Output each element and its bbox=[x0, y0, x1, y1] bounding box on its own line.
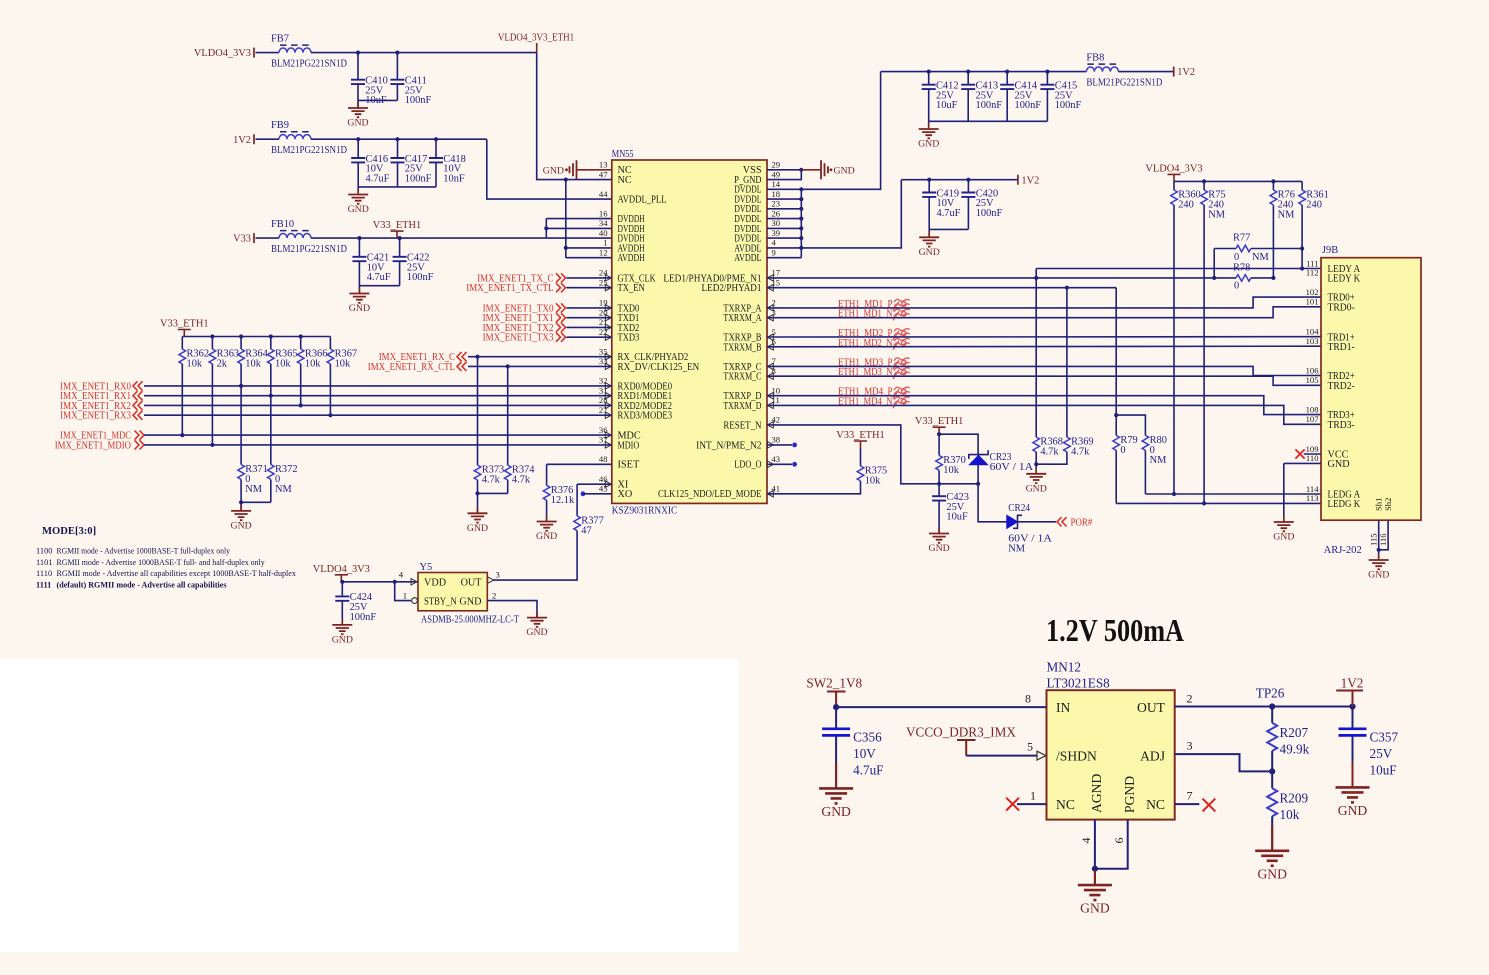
svg-text:106: 106 bbox=[1306, 365, 1320, 375]
wire TXRXM_B to TRD1- bbox=[767, 345, 1321, 348]
wire Y5 GND bbox=[487, 601, 537, 618]
resistor R77 bbox=[1236, 245, 1251, 252]
twisted-pair icon bbox=[893, 299, 910, 310]
svg-text:10k: 10k bbox=[943, 465, 959, 476]
wire MODE1 strap down bbox=[270, 396, 272, 465]
wire 1V2_ETH rail bbox=[311, 138, 487, 140]
resistor R373 bbox=[474, 465, 504, 486]
MN55 pin arrows bbox=[605, 275, 773, 497]
svg-text:TXRXM_B: TXRXM_B bbox=[723, 342, 761, 353]
svg-text:TRD0-: TRD0- bbox=[1328, 302, 1356, 313]
resistor R376 bbox=[543, 485, 575, 506]
svg-text:108: 108 bbox=[1306, 404, 1319, 414]
svg-text:10uF: 10uF bbox=[1370, 763, 1397, 778]
twisted-pair icon bbox=[893, 358, 910, 369]
resistor R366 bbox=[297, 349, 327, 370]
wire VLDO4_3V3 rail bbox=[1174, 180, 1302, 182]
wire gnd lead bbox=[928, 121, 930, 129]
svg-text:1101: 1101 bbox=[36, 558, 52, 567]
svg-text:GND: GND bbox=[467, 523, 488, 534]
svg-text:39: 39 bbox=[772, 228, 781, 238]
svg-text:6: 6 bbox=[772, 337, 777, 347]
svg-text:4.7uF: 4.7uF bbox=[853, 763, 883, 778]
svg-text:AGND: AGND bbox=[1089, 774, 1104, 813]
wire pin110 GND bbox=[1284, 462, 1321, 464]
pin1 NC no-connect bbox=[1017, 803, 1047, 805]
svg-text:24: 24 bbox=[599, 268, 608, 278]
power port SW2_1V8 bbox=[806, 676, 862, 708]
resistor R372 bbox=[267, 464, 297, 495]
ground bbox=[332, 619, 353, 646]
svg-text:VLDO4_3V3_ETH1: VLDO4_3V3_ETH1 bbox=[498, 33, 574, 44]
junction C411 tap bbox=[395, 51, 399, 55]
junction C410 tap bbox=[356, 51, 360, 55]
svg-text:GND: GND bbox=[536, 531, 557, 542]
svg-text:V33_ETH1: V33_ETH1 bbox=[373, 220, 421, 231]
ground bbox=[536, 516, 557, 543]
capacitor C424 bbox=[335, 582, 376, 623]
svg-text:NM: NM bbox=[1278, 210, 1295, 221]
svg-text:TXD3: TXD3 bbox=[618, 333, 640, 344]
svg-text:TRD1-: TRD1- bbox=[1328, 342, 1356, 353]
svg-text:1V2: 1V2 bbox=[1177, 67, 1195, 78]
ground bbox=[1336, 761, 1370, 818]
svg-text:R209: R209 bbox=[1280, 791, 1309, 806]
wire VLDO4_3V3_ETH1 drop bbox=[537, 53, 566, 180]
power port VCCO_DDR3_IMX bbox=[906, 724, 1016, 755]
wire P_GND stub bbox=[767, 170, 801, 180]
svg-text:PGND: PGND bbox=[1122, 776, 1137, 813]
svg-text:116: 116 bbox=[1378, 533, 1388, 546]
svg-text:30: 30 bbox=[772, 218, 781, 228]
svg-text:GND: GND bbox=[230, 520, 251, 531]
svg-text:NC: NC bbox=[1056, 797, 1075, 812]
svg-text:ISET: ISET bbox=[618, 460, 641, 471]
svg-text:VCCO_DDR3_IMX: VCCO_DDR3_IMX bbox=[906, 724, 1016, 739]
wire LED2 row bbox=[767, 287, 1116, 289]
wire cap bottoms bbox=[358, 186, 436, 188]
svg-text:GND: GND bbox=[1080, 901, 1110, 916]
wire RESET_N bbox=[767, 425, 978, 484]
svg-text:19: 19 bbox=[599, 298, 608, 308]
twisted-pair icon bbox=[893, 368, 910, 379]
wire VLDO4_3V3_ETH1 rail bbox=[311, 52, 537, 54]
svg-text:10uF: 10uF bbox=[936, 100, 958, 111]
J9B shield pins bbox=[1374, 498, 1394, 511]
wire gnd lead bbox=[357, 187, 359, 195]
svg-text:BLM21PG221SN1D: BLM21PG221SN1D bbox=[271, 244, 347, 255]
power port VLDO4_3V3 bbox=[1145, 163, 1202, 181]
svg-text:LEDG K: LEDG K bbox=[1328, 499, 1361, 510]
svg-text:112: 112 bbox=[1306, 268, 1319, 278]
resistor R374 bbox=[504, 465, 535, 486]
svg-text:13: 13 bbox=[599, 160, 608, 170]
power port V33_ETH1 bbox=[373, 220, 421, 238]
svg-text:NC: NC bbox=[1146, 797, 1165, 812]
svg-text:TXRXM_C: TXRXM_C bbox=[723, 372, 761, 383]
svg-text:102: 102 bbox=[1306, 287, 1319, 297]
svg-text:ARJ-202: ARJ-202 bbox=[1324, 545, 1362, 556]
capacitor C411 bbox=[390, 53, 431, 107]
svg-text:GND: GND bbox=[347, 118, 368, 129]
svg-text:Sh1: Sh1 bbox=[1374, 498, 1384, 511]
ground bbox=[1078, 870, 1112, 916]
wire 1V2 to FB9 bbox=[256, 138, 280, 140]
ground bbox=[1368, 554, 1389, 581]
wire Sh2 stub bbox=[1379, 520, 1388, 550]
resistor R77 bracket bbox=[1213, 249, 1215, 278]
wire ISET bbox=[547, 463, 612, 465]
svg-text:1V2: 1V2 bbox=[1021, 175, 1039, 186]
svg-text:MDIO: MDIO bbox=[618, 440, 640, 451]
wire OUT to 1V2 bbox=[1175, 706, 1353, 708]
svg-text:101: 101 bbox=[1306, 297, 1319, 307]
svg-text:1: 1 bbox=[603, 238, 607, 248]
wire V33 to FB10 bbox=[256, 237, 280, 239]
svg-text:1V2: 1V2 bbox=[1341, 676, 1364, 691]
svg-text:1100: 1100 bbox=[36, 547, 52, 556]
wire CLK125 to R375 bbox=[767, 481, 861, 494]
capacitor C422 bbox=[393, 238, 434, 286]
svg-text:GND: GND bbox=[332, 634, 353, 645]
resistor R361 bbox=[1299, 190, 1329, 211]
svg-text:10k: 10k bbox=[335, 359, 351, 370]
svg-text:4: 4 bbox=[399, 570, 404, 580]
svg-text:RGMII mode - Advertise 1000BAS: RGMII mode - Advertise 1000BASE-T full-d… bbox=[57, 547, 231, 556]
svg-text:R77: R77 bbox=[1233, 233, 1250, 244]
svg-text:2: 2 bbox=[1187, 692, 1193, 706]
svg-text:1: 1 bbox=[403, 591, 407, 601]
ground bbox=[349, 288, 370, 315]
wire pin1 AVDDH bbox=[566, 247, 612, 249]
resistor R375 bbox=[857, 466, 887, 487]
svg-text:AVDDH: AVDDH bbox=[618, 253, 646, 264]
svg-text:10k: 10k bbox=[245, 359, 261, 370]
wire 1V2 cap rail bbox=[881, 71, 1087, 73]
svg-text:VDD: VDD bbox=[424, 578, 446, 589]
svg-text:28: 28 bbox=[599, 395, 608, 405]
capacitor C356 bbox=[822, 707, 883, 788]
svg-text:GND: GND bbox=[1328, 459, 1350, 470]
svg-text:V33: V33 bbox=[233, 234, 251, 245]
wire R369 column bbox=[1066, 288, 1068, 437]
svg-text:44: 44 bbox=[599, 189, 608, 199]
wire TXRXM_A to TRD0- bbox=[767, 307, 1321, 318]
ground bbox=[347, 102, 368, 129]
svg-text:23: 23 bbox=[772, 199, 781, 209]
svg-text:47: 47 bbox=[599, 169, 608, 179]
svg-text:LT3021ES8: LT3021ES8 bbox=[1047, 676, 1111, 691]
resistor R75 bbox=[1201, 190, 1226, 221]
svg-text:LEDY K: LEDY K bbox=[1328, 274, 1361, 285]
svg-text:60V / 1A: 60V / 1A bbox=[990, 462, 1034, 473]
wire V33_ETH1 rail bbox=[311, 237, 546, 239]
svg-text:CLK125_NDO/LED_MODE: CLK125_NDO/LED_MODE bbox=[658, 489, 762, 500]
svg-text:GND: GND bbox=[1368, 570, 1389, 581]
svg-text:TX_EN: TX_EN bbox=[618, 283, 646, 294]
ferrite bead FB8 bbox=[1086, 53, 1162, 89]
svg-text:NM: NM bbox=[1252, 252, 1269, 263]
svg-text:43: 43 bbox=[772, 454, 781, 464]
wire Sh1 stub bbox=[1378, 520, 1380, 550]
svg-text:C356: C356 bbox=[853, 730, 882, 745]
svg-text:FB10: FB10 bbox=[271, 219, 294, 230]
svg-text:10k: 10k bbox=[305, 359, 321, 370]
svg-text:BLM21PG221SN1D: BLM21PG221SN1D bbox=[1086, 78, 1162, 89]
svg-text:TXRXM_A: TXRXM_A bbox=[723, 313, 762, 324]
svg-text:GND: GND bbox=[834, 166, 855, 177]
svg-text:3: 3 bbox=[1187, 739, 1193, 753]
wire TXRXM_C to TRD2- bbox=[767, 376, 1321, 385]
svg-text:MODE[3:0]: MODE[3:0] bbox=[42, 526, 96, 537]
power port 1V2 bbox=[1174, 67, 1195, 79]
svg-text:9: 9 bbox=[772, 248, 776, 258]
svg-text:GND: GND bbox=[928, 543, 949, 554]
svg-text:ADJ: ADJ bbox=[1140, 749, 1165, 764]
svg-text:GND: GND bbox=[526, 627, 547, 638]
svg-text:48: 48 bbox=[599, 454, 608, 464]
svg-text:1111: 1111 bbox=[36, 580, 51, 589]
crystal osc Y5 bbox=[418, 573, 487, 611]
twisted-pair icon bbox=[893, 309, 910, 320]
capacitor C357 bbox=[1339, 707, 1399, 788]
svg-text:GND: GND bbox=[459, 596, 481, 607]
wire pin47 bbox=[566, 179, 612, 181]
wire R368 column bbox=[1035, 269, 1037, 438]
wire AGND/PGND pins 4,6 bbox=[1094, 820, 1096, 869]
no-connect dangling end bbox=[792, 443, 797, 448]
power port V33_ETH1 bbox=[836, 430, 884, 448]
svg-text:GND: GND bbox=[543, 166, 564, 177]
ground bbox=[1026, 468, 1047, 495]
wire LEDG A row bbox=[1145, 493, 1321, 495]
svg-text:47: 47 bbox=[581, 525, 591, 536]
resistor R370 bbox=[936, 455, 966, 476]
svg-text:42: 42 bbox=[772, 415, 781, 425]
svg-text:33: 33 bbox=[599, 356, 608, 366]
svg-text:100nF: 100nF bbox=[1055, 100, 1082, 111]
ground bbox=[348, 189, 369, 216]
svg-text:41: 41 bbox=[772, 484, 781, 494]
wire R377 to Y5 OUT bbox=[493, 531, 578, 580]
svg-text:KSZ9031RNXIC: KSZ9031RNXIC bbox=[612, 506, 677, 517]
capacitor C412 bbox=[922, 72, 959, 122]
wire cap bottoms bbox=[359, 285, 399, 287]
wire gnd lead bbox=[358, 286, 360, 294]
op-amp U MN55 KSZ9031RNXIC body bbox=[612, 160, 767, 503]
svg-text:4.7uF: 4.7uF bbox=[367, 272, 391, 283]
wire DVDDL bus bbox=[800, 189, 802, 257]
power port VLDO4_3V3 bbox=[313, 564, 370, 582]
svg-text:115: 115 bbox=[1369, 533, 1379, 546]
wire cap bottoms bbox=[929, 120, 1048, 122]
svg-text:12.1k: 12.1k bbox=[551, 495, 575, 506]
svg-text:STBY_N: STBY_N bbox=[424, 596, 457, 607]
svg-text:10: 10 bbox=[772, 386, 781, 396]
svg-text:3: 3 bbox=[496, 570, 500, 580]
wire pin16 DVDDH bbox=[546, 218, 612, 220]
wire LDO_O stub bbox=[767, 463, 792, 465]
resistor R363 bbox=[209, 349, 239, 370]
svg-text:GND: GND bbox=[1338, 803, 1368, 818]
wire VLDO4_3V3 to FB7 bbox=[256, 52, 280, 54]
svg-text:10k: 10k bbox=[275, 359, 291, 370]
ground VSS/P_GND bbox=[799, 168, 803, 172]
svg-text:VLDO4_3V3: VLDO4_3V3 bbox=[313, 564, 370, 575]
svg-text:OUT: OUT bbox=[461, 578, 483, 589]
svg-text:GND: GND bbox=[349, 303, 370, 314]
svg-text:TRD2-: TRD2- bbox=[1328, 381, 1356, 392]
svg-text:FB7: FB7 bbox=[271, 34, 289, 45]
power port VLDO4_3V3 bbox=[194, 48, 254, 60]
no-connect X bbox=[1006, 798, 1019, 811]
pin7 NC no-connect bbox=[1175, 803, 1200, 805]
svg-text:107: 107 bbox=[1306, 414, 1320, 424]
svg-text:240: 240 bbox=[1178, 200, 1194, 211]
wire gnd lead bbox=[1378, 550, 1380, 560]
svg-text:12: 12 bbox=[599, 248, 608, 258]
svg-text:ASDMB-25.000MHZ-LC-T: ASDMB-25.000MHZ-LC-T bbox=[421, 615, 520, 626]
twisted-pair icon bbox=[893, 329, 910, 340]
ground bbox=[928, 528, 949, 555]
wire DVDDL to top caps bbox=[801, 72, 880, 190]
wire to AVDDL_PLL pin44 bbox=[487, 139, 612, 199]
svg-text:GND: GND bbox=[348, 204, 369, 215]
svg-text:38: 38 bbox=[772, 435, 781, 445]
wire cap bottoms bbox=[358, 99, 397, 101]
svg-text:35: 35 bbox=[599, 347, 608, 357]
resistor R365 bbox=[267, 349, 297, 370]
svg-text:IMX_ENET1_RX3: IMX_ENET1_RX3 bbox=[60, 411, 131, 422]
svg-text:/SHDN: /SHDN bbox=[1056, 749, 1097, 764]
twisted-pair icon bbox=[893, 387, 910, 398]
wire V33 to CR23 bbox=[939, 434, 978, 454]
capacitor C417 bbox=[391, 139, 432, 187]
resistor R360 bbox=[1171, 190, 1201, 211]
svg-text:105: 105 bbox=[1306, 375, 1319, 385]
connector J9B ARJ-202 body bbox=[1321, 258, 1421, 521]
svg-text:NM: NM bbox=[275, 484, 292, 495]
wire LEDY A row bbox=[1036, 268, 1321, 270]
svg-text:100nF: 100nF bbox=[976, 208, 1003, 219]
svg-text:IN: IN bbox=[1056, 700, 1071, 715]
svg-text:IMX_ENET1_RX_CTL: IMX_ENET1_RX_CTL bbox=[368, 362, 455, 373]
ferrite bead FB7 bbox=[271, 34, 347, 70]
wire gnd lead bbox=[240, 502, 242, 511]
capacitor C420 bbox=[961, 180, 1002, 230]
svg-text:TP26: TP26 bbox=[1256, 686, 1285, 701]
wire pin40 DVDDH bbox=[546, 237, 612, 239]
resistor R209 bbox=[1267, 771, 1308, 822]
svg-text:10k: 10k bbox=[865, 476, 881, 487]
resistor R371 bbox=[238, 464, 268, 495]
resistor R362 bbox=[179, 349, 209, 370]
wire TXRXP_A to TRD0+ bbox=[767, 297, 1321, 308]
svg-text:15: 15 bbox=[772, 278, 781, 288]
svg-text:FB8: FB8 bbox=[1086, 53, 1104, 64]
svg-text:36: 36 bbox=[599, 425, 608, 435]
no-connect X bbox=[1295, 449, 1304, 458]
wire XI to R377 bbox=[576, 484, 578, 516]
svg-text:4.7k: 4.7k bbox=[1040, 447, 1059, 458]
svg-text:C357: C357 bbox=[1370, 730, 1399, 745]
svg-text:100nF: 100nF bbox=[976, 100, 1003, 111]
capacitor C414 bbox=[1000, 72, 1041, 122]
ground bbox=[467, 507, 488, 534]
wire STBY_N tie bbox=[395, 582, 411, 601]
svg-text:25: 25 bbox=[599, 278, 608, 288]
ground bbox=[819, 762, 853, 819]
ferrite bead FB10 bbox=[271, 219, 347, 255]
wire /SHDN bbox=[966, 755, 1037, 757]
resistor R79 bbox=[1113, 435, 1138, 456]
no-connect dangling end bbox=[581, 491, 586, 496]
wire LED2 to R79/R80 bbox=[1115, 288, 1117, 415]
svg-text:34: 34 bbox=[599, 218, 608, 228]
svg-text:4.7k: 4.7k bbox=[1071, 447, 1090, 458]
svg-text:MN55: MN55 bbox=[612, 149, 634, 160]
svg-text:GND: GND bbox=[918, 139, 939, 150]
ground bbox=[1273, 516, 1294, 543]
svg-text:R207: R207 bbox=[1280, 725, 1309, 740]
resistor R367 bbox=[327, 349, 357, 370]
svg-text:CR24: CR24 bbox=[1008, 503, 1031, 514]
wire V33_ETH1 strap rail bbox=[182, 336, 330, 338]
svg-text:FB9: FB9 bbox=[271, 120, 289, 131]
wire AVDDH feed bbox=[564, 178, 568, 182]
svg-text:10uF: 10uF bbox=[946, 512, 968, 523]
capacitor C423 bbox=[932, 484, 969, 533]
resistor R76 bbox=[1270, 190, 1295, 221]
svg-text:100nF: 100nF bbox=[1015, 100, 1042, 111]
svg-text:INT_N/PME_N2: INT_N/PME_N2 bbox=[696, 440, 761, 451]
power port V33 bbox=[233, 233, 254, 245]
svg-text:100nF: 100nF bbox=[350, 612, 377, 623]
wire RX_C pulldown bbox=[477, 357, 479, 465]
capacitor C419 bbox=[922, 180, 960, 230]
svg-text:NM: NM bbox=[1150, 455, 1167, 466]
svg-text:AVDDL_PLL: AVDDL_PLL bbox=[618, 195, 667, 206]
no-connect dangling end bbox=[792, 462, 797, 467]
svg-text:NM: NM bbox=[1008, 544, 1025, 555]
svg-text:RGMII mode - Advertise 1000BAS: RGMII mode - Advertise 1000BASE-T full- … bbox=[57, 558, 266, 567]
svg-text:OUT: OUT bbox=[1137, 700, 1166, 715]
svg-text:R78: R78 bbox=[1233, 262, 1250, 273]
svg-text:37: 37 bbox=[599, 435, 608, 445]
wire RX_CTL pulldown bbox=[507, 366, 509, 465]
svg-text:GND: GND bbox=[1273, 532, 1294, 543]
wire TXRXP_D to TRD3+ bbox=[767, 396, 1321, 415]
power port 1V2 bbox=[1336, 676, 1363, 707]
diode CR23 bbox=[969, 450, 1034, 484]
wire 1V2 rail bbox=[901, 179, 1018, 181]
wire DVDDH bus bbox=[545, 219, 547, 239]
wire LED1 row bbox=[767, 277, 1214, 279]
svg-text:32: 32 bbox=[599, 376, 608, 386]
text block MODE[3:0] bbox=[36, 526, 297, 589]
regulator MN12 LT3021ES8 body bbox=[1047, 690, 1175, 819]
svg-text:XO: XO bbox=[618, 489, 633, 500]
svg-text:40: 40 bbox=[599, 228, 608, 238]
svg-text:8: 8 bbox=[1025, 692, 1031, 706]
svg-text:BLM21PG221SN1D: BLM21PG221SN1D bbox=[271, 59, 347, 70]
ground bbox=[1255, 825, 1289, 882]
svg-text:0: 0 bbox=[1120, 445, 1125, 456]
svg-text:21: 21 bbox=[599, 317, 608, 327]
resistor R368 bbox=[1033, 437, 1063, 458]
svg-text:113: 113 bbox=[1306, 493, 1319, 503]
svg-text:RXD3/MODE3: RXD3/MODE3 bbox=[618, 411, 673, 422]
